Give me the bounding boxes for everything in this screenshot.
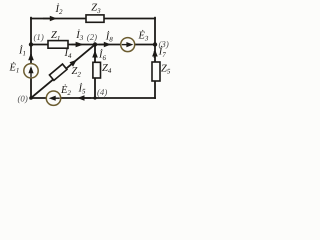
wire Z4 branch: node2 down to node4 bbox=[94, 45, 96, 99]
source E1 circle bbox=[24, 64, 38, 78]
resistor Z1 box bbox=[48, 41, 68, 49]
resistor Z2 box (rotated on diagonal) bbox=[49, 64, 67, 80]
current I7 arrow on right wire (up) bbox=[152, 49, 158, 58]
svg-text:(0): (0) bbox=[18, 93, 28, 103]
current I8 arrow on middle wire bbox=[99, 42, 111, 48]
node 1 junction dot bbox=[29, 42, 33, 46]
wire diagonal: node0 up to node2 bbox=[31, 45, 95, 99]
current I1 arrow on left wire (up) bbox=[28, 53, 34, 61]
wire left vertical: top corner through node1, E1 to node0 bbox=[30, 18, 32, 98]
node 4 junction dot bbox=[93, 96, 96, 99]
node 2 junction dot bbox=[93, 42, 97, 46]
svg-text:(4): (4) bbox=[97, 87, 107, 97]
current I5 arrow on bottom wire (left) bbox=[77, 95, 91, 101]
wire right vertical: top corner through node3, Z5 to bottom bbox=[154, 18, 156, 98]
source E3 circle bbox=[121, 38, 135, 52]
resistor Z5 box bbox=[152, 62, 160, 81]
current I4 arrow on diagonal (up-right) bbox=[69, 60, 76, 67]
node 3 junction dot bbox=[153, 42, 157, 46]
source E3 inner arrow (right) bbox=[122, 42, 134, 47]
node 0 junction dot bbox=[29, 96, 33, 100]
svg-text:(2): (2) bbox=[87, 32, 97, 42]
current I3 arrow on middle wire bbox=[72, 42, 84, 47]
current I2 arrow on top wire bbox=[43, 16, 57, 22]
svg-text:(1): (1) bbox=[34, 32, 44, 42]
wire middle: node1 to node3 bbox=[31, 44, 155, 46]
source E2 inner arrow (left) bbox=[49, 96, 60, 101]
source E1 inner arrow (up) bbox=[28, 66, 33, 77]
resistor Z4 box bbox=[93, 62, 101, 78]
current I6 arrow on Z4 branch (up) bbox=[92, 50, 98, 58]
resistor Z3 box bbox=[86, 15, 104, 22]
source E2 circle bbox=[46, 91, 60, 105]
wire bottom: node0 to bottom-right corner bbox=[31, 97, 155, 99]
wire top: node1 corner to node3 corner bbox=[31, 18, 155, 20]
